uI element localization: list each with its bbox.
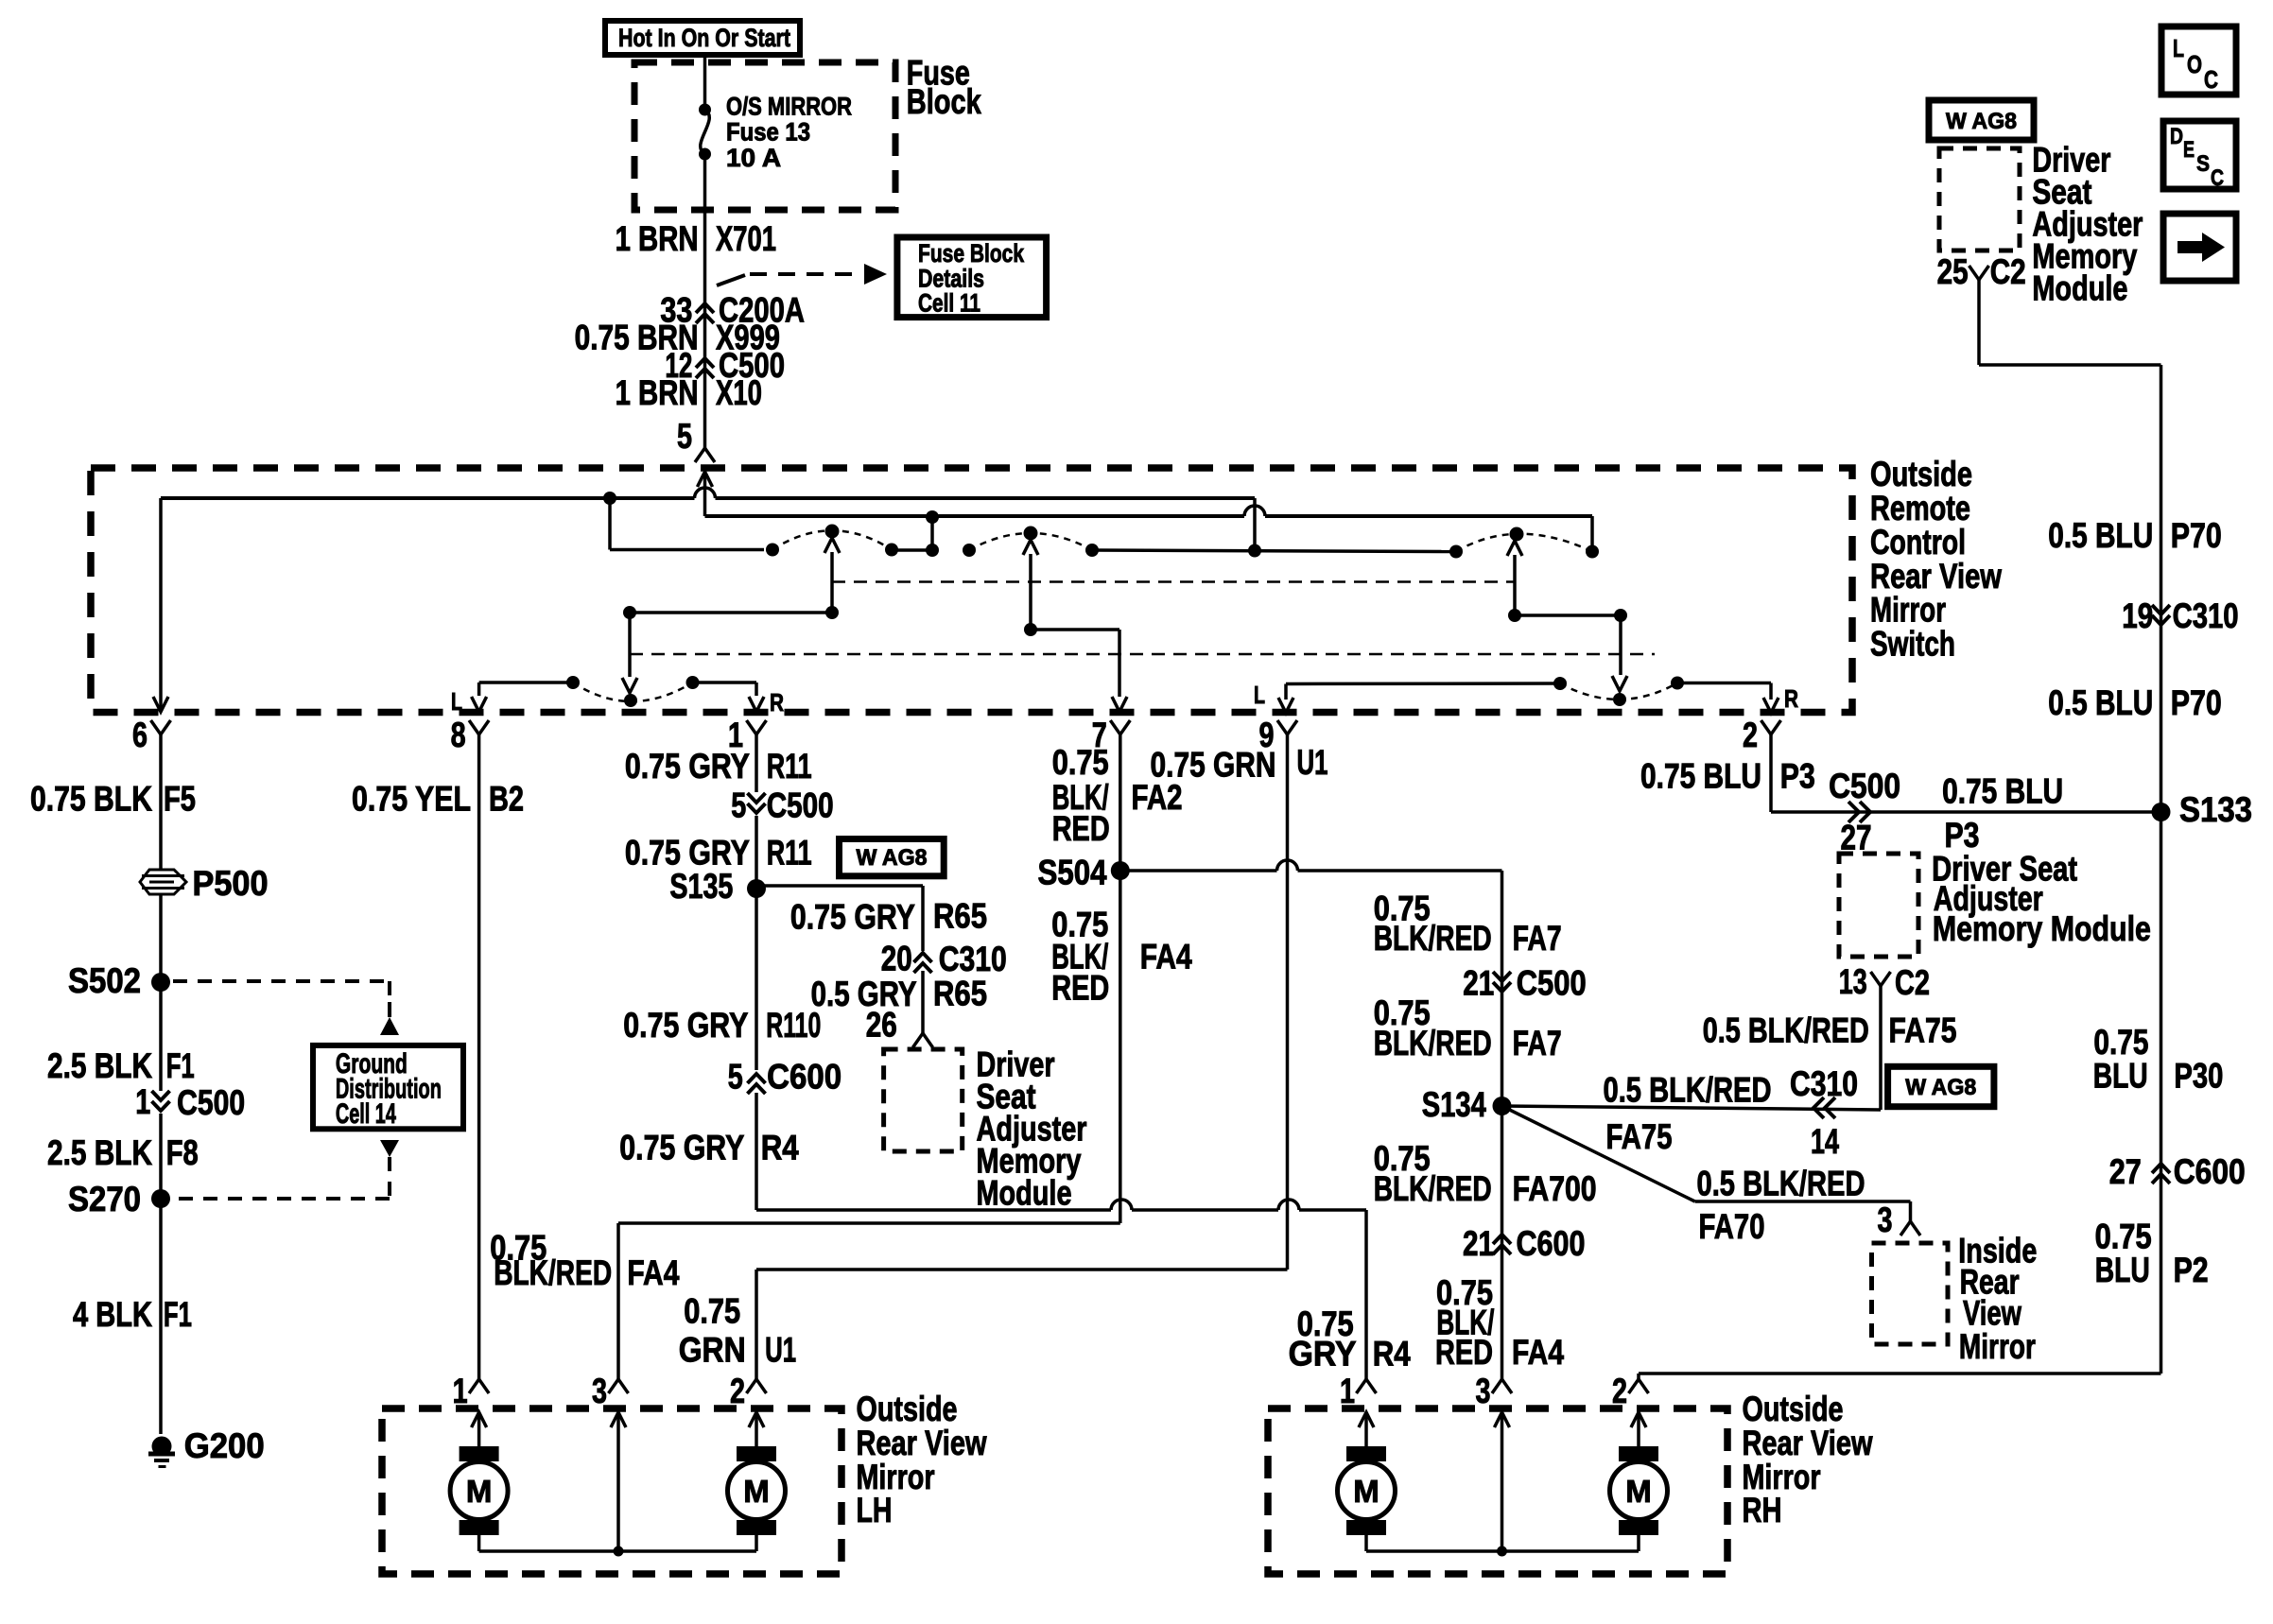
- dashed pointer to fuse block details: [717, 275, 745, 285]
- svg-text:U1: U1: [1297, 743, 1328, 782]
- connector C2 pin 25 fork: [1969, 266, 1989, 280]
- svg-text:FA4: FA4: [627, 1253, 679, 1292]
- svg-text:27: 27: [1841, 819, 1872, 857]
- svg-text:5: 5: [731, 786, 746, 824]
- left switch wiper pivot dot: [825, 525, 840, 539]
- motor RH vertical: [1619, 1446, 1658, 1461]
- svg-text:S134: S134: [1422, 1085, 1486, 1124]
- svg-text:Rear View: Rear View: [857, 1424, 987, 1462]
- left switch fixed contact B: [885, 544, 898, 557]
- mirror RH pin 2 entry arrow: [1631, 1412, 1646, 1427]
- svg-text:L: L: [2173, 34, 2184, 62]
- svg-text:GRN: GRN: [679, 1330, 746, 1369]
- svg-text:25: 25: [1937, 252, 1969, 291]
- wire FA7 upper: [1501, 871, 1504, 1106]
- svg-text:BLU: BLU: [2093, 1057, 2148, 1096]
- wire F1 4mm: [159, 1199, 163, 1434]
- svg-text:R65: R65: [933, 974, 987, 1012]
- fuse F13 top terminal: [699, 104, 711, 116]
- right switch arc: [1456, 534, 1592, 552]
- svg-text:Outside: Outside: [1870, 455, 1972, 493]
- svg-text:0.5 BLK/RED: 0.5 BLK/RED: [1604, 1070, 1772, 1109]
- svg-text:0.75 BLK: 0.75 BLK: [30, 779, 152, 818]
- mirror RH pin 1 entry arrow: [1359, 1412, 1374, 1427]
- svg-text:RED: RED: [1052, 809, 1110, 848]
- middle pole to pin 7: [1024, 623, 1037, 636]
- wire FA2: [1119, 734, 1122, 871]
- svg-text:M: M: [466, 1474, 493, 1509]
- switch pin 8 fork: [469, 720, 489, 734]
- svg-text:P30: P30: [2174, 1057, 2223, 1096]
- svg-text:BLK/RED: BLK/RED: [494, 1253, 612, 1292]
- svg-text:0.75: 0.75: [684, 1292, 740, 1331]
- svg-text:S133: S133: [2179, 790, 2252, 829]
- wire S504 to FA7 chain: [1120, 869, 1277, 872]
- mirror LH common bus: [477, 1535, 481, 1551]
- mirror LH pin 1 fork: [469, 1379, 489, 1393]
- ground distribution box: [313, 1045, 463, 1129]
- svg-text:RED: RED: [1435, 1333, 1493, 1372]
- svg-text:Outside: Outside: [1743, 1390, 1844, 1428]
- right switch lower wiper dot: [1613, 693, 1626, 706]
- motor LH vertical: [737, 1446, 776, 1461]
- svg-text:0.5 BLU: 0.5 BLU: [2048, 516, 2153, 555]
- splice S270: [151, 1189, 170, 1208]
- fuse block details box: [897, 237, 1047, 318]
- svg-text:C310: C310: [2173, 596, 2239, 635]
- wire U1 vertical: [1286, 734, 1290, 1270]
- svg-text:FA7: FA7: [1513, 919, 1562, 958]
- svg-text:C2: C2: [1895, 963, 1930, 1002]
- svg-text:C: C: [2211, 165, 2224, 191]
- left switch pole drop: [628, 613, 632, 677]
- svg-text:C500: C500: [177, 1083, 245, 1122]
- svg-text:F5: F5: [164, 779, 196, 818]
- svg-text:13: 13: [1839, 962, 1867, 1001]
- svg-text:3: 3: [1878, 1201, 1893, 1239]
- svg-text:Rear View: Rear View: [1743, 1424, 1873, 1462]
- svg-text:R: R: [1784, 684, 1798, 713]
- svg-text:R110: R110: [766, 1006, 821, 1045]
- svg-text:Switch: Switch: [1870, 625, 1955, 664]
- wire B2: [477, 734, 481, 1379]
- legend box arrow: [2163, 214, 2236, 281]
- wiring code box W AG8 right: [1888, 1066, 1994, 1106]
- mirror switch dashed box: [91, 468, 1852, 713]
- svg-text:10 A: 10 A: [726, 144, 781, 172]
- wire to pin 2 R: [1677, 682, 1771, 685]
- svg-text:G200: G200: [184, 1426, 265, 1465]
- middle switch contact A: [963, 544, 976, 557]
- wire into fuse block: [703, 55, 707, 110]
- wire F8: [159, 1114, 163, 1199]
- svg-text:BLK/RED: BLK/RED: [1374, 1024, 1492, 1063]
- svg-text:B2: B2: [489, 779, 524, 818]
- svg-text:14: 14: [1811, 1122, 1839, 1161]
- svg-text:2: 2: [1612, 1372, 1627, 1410]
- wire FA4 horizontal: [618, 1221, 1120, 1225]
- fuse block dashed box: [634, 62, 895, 210]
- wire to pin 9 L: [1286, 682, 1560, 685]
- svg-text:R4: R4: [761, 1128, 799, 1166]
- driver seat adjuster memory module box top: [1939, 148, 2020, 251]
- svg-text:RED: RED: [1051, 969, 1109, 1008]
- svg-text:R11: R11: [767, 833, 812, 872]
- svg-text:0.75: 0.75: [1052, 743, 1109, 782]
- left switch lower arc: [573, 682, 693, 701]
- right pole link: [1508, 609, 1521, 622]
- wire R4 to RH pin1: [1364, 1210, 1368, 1379]
- svg-text:3: 3: [1476, 1372, 1491, 1410]
- svg-text:C600: C600: [1517, 1224, 1586, 1263]
- bus B2 corner down: [1590, 516, 1594, 546]
- hop S504 over U1: [1277, 860, 1298, 871]
- wire X999: [703, 312, 707, 367]
- svg-text:C500: C500: [1517, 963, 1587, 1002]
- svg-text:C2: C2: [1990, 252, 2026, 291]
- wire FA75 vertical: [1879, 986, 1883, 1110]
- left contact feed: [608, 498, 612, 550]
- svg-text:Control: Control: [1870, 523, 1966, 561]
- junction B1 drop on B3: [1248, 544, 1261, 558]
- svg-text:X10: X10: [716, 373, 762, 412]
- wire R65 lower: [921, 971, 925, 1033]
- svg-text:1: 1: [135, 1082, 150, 1121]
- svg-text:LH: LH: [857, 1491, 893, 1529]
- right switch lower contact L: [1553, 677, 1567, 690]
- svg-text:M: M: [1625, 1474, 1652, 1509]
- mirror RH pin 2 fork: [1629, 1379, 1649, 1393]
- motor RH horizontal: [1346, 1446, 1386, 1461]
- svg-text:19: 19: [2122, 596, 2153, 635]
- wire P30: [2160, 812, 2163, 1373]
- svg-text:0.5 GRY: 0.5 GRY: [811, 975, 917, 1013]
- pin 6 entry arrow: [153, 697, 168, 712]
- pin 5 entry arrow: [698, 472, 713, 487]
- svg-text:1 BRN: 1 BRN: [616, 219, 699, 258]
- svg-text:R11: R11: [767, 747, 812, 786]
- svg-text:0.75 BLU: 0.75 BLU: [1942, 772, 2063, 811]
- driver seat adjuster memory module box mid: [884, 1049, 963, 1151]
- middle switch pole arrow: [1029, 554, 1032, 630]
- svg-text:1: 1: [1340, 1372, 1355, 1410]
- mirror LH pin 3 entry arrow: [611, 1412, 626, 1427]
- switch pin 1 fork: [747, 720, 767, 734]
- svg-text:2: 2: [1743, 716, 1758, 754]
- wire P3 horizontal: [1771, 810, 2161, 814]
- switch pin 6 fork: [151, 720, 171, 734]
- hop R4 over U1: [1278, 1200, 1299, 1210]
- wire bus B3: [1092, 550, 1456, 552]
- svg-text:GRY: GRY: [1289, 1334, 1357, 1373]
- left switch pole arrow: [830, 552, 834, 613]
- wire R11 upper: [755, 734, 758, 792]
- svg-text:C310: C310: [939, 940, 1007, 978]
- svg-text:0.75 GRY: 0.75 GRY: [625, 747, 750, 786]
- wire FA70 diagonal: [1502, 1106, 1695, 1201]
- svg-text:Cell 11: Cell 11: [918, 289, 980, 318]
- svg-text:0.75 GRN: 0.75 GRN: [1151, 746, 1276, 785]
- svg-text:1: 1: [453, 1372, 468, 1410]
- left switch lower wiper dot: [624, 694, 637, 707]
- mirror RH pin 3 entry arrow: [1495, 1412, 1510, 1427]
- hop of B2 over B1 drop: [1244, 506, 1265, 516]
- mirror RH pin 3 fork: [1492, 1379, 1512, 1393]
- svg-text:S135: S135: [669, 867, 733, 906]
- svg-text:R: R: [770, 688, 784, 717]
- svg-text:Module: Module: [2032, 269, 2127, 308]
- outside rear view mirror LH box: [382, 1408, 842, 1574]
- splice S504: [1111, 861, 1130, 880]
- wire R65 branch: [756, 884, 923, 888]
- svg-text:0.75 BLU: 0.75 BLU: [1640, 756, 1761, 795]
- middle switch contact B: [1085, 544, 1099, 557]
- svg-text:0.75 GRY: 0.75 GRY: [790, 897, 915, 936]
- right switch contact B: [1586, 545, 1599, 559]
- svg-text:BLU: BLU: [2095, 1251, 2150, 1289]
- fuse F13 bottom terminal: [699, 148, 711, 161]
- bus B1 corner down: [1253, 498, 1257, 549]
- mirror LH pin 3 fork: [609, 1379, 629, 1393]
- switch pin 2 fork: [1761, 720, 1781, 734]
- svg-text:2.5 BLK: 2.5 BLK: [47, 1133, 152, 1172]
- svg-text:R65: R65: [933, 896, 987, 935]
- right switch pivot dot: [1510, 527, 1524, 542]
- svg-text:1 BRN: 1 BRN: [616, 373, 699, 412]
- svg-text:5: 5: [728, 1058, 743, 1097]
- svg-text:O: O: [2187, 50, 2202, 78]
- svg-text:Cell 14: Cell 14: [336, 1098, 396, 1130]
- left switch pole bus: [825, 606, 839, 619]
- svg-text:BLK/RED: BLK/RED: [1374, 1169, 1492, 1208]
- svg-text:26: 26: [866, 1005, 897, 1044]
- svg-text:Module: Module: [977, 1174, 1072, 1213]
- switch pin 5 connector fork: [695, 448, 715, 462]
- svg-text:P3: P3: [1780, 756, 1815, 795]
- svg-text:L: L: [1254, 681, 1265, 709]
- svg-text:S502: S502: [68, 961, 141, 1000]
- wire X10: [703, 367, 707, 448]
- wire U1 to LH pin2: [755, 1270, 758, 1379]
- svg-text:R4: R4: [1373, 1334, 1411, 1373]
- splice S502: [151, 973, 170, 992]
- svg-text:0.5 BLK/RED: 0.5 BLK/RED: [1697, 1164, 1865, 1202]
- svg-text:21: 21: [1463, 963, 1494, 1002]
- wire R4 horizontal: [756, 1208, 1111, 1212]
- svg-text:C600: C600: [2174, 1152, 2246, 1191]
- svg-text:C500: C500: [767, 786, 834, 824]
- wire P70 from pin 25: [1977, 280, 1981, 365]
- junction bus B1 to left contact: [603, 492, 616, 505]
- middle switch arc: [969, 533, 1092, 550]
- right switch lower contact R: [1671, 677, 1684, 690]
- svg-text:Hot In On Or Start: Hot In On Or Start: [618, 24, 790, 52]
- motor LH horizontal: [460, 1446, 499, 1461]
- svg-text:0.5 BLU: 0.5 BLU: [2048, 683, 2153, 722]
- svg-text:5: 5: [677, 417, 692, 456]
- wiring code box W AG8 mid: [840, 839, 945, 876]
- svg-text:Mirror: Mirror: [1959, 1327, 2036, 1366]
- svg-text:C310: C310: [1790, 1064, 1858, 1103]
- svg-text:Remote: Remote: [1870, 489, 1970, 527]
- svg-text:W AG8: W AG8: [857, 845, 928, 871]
- wire F1 2.5: [159, 982, 163, 1091]
- svg-text:0.75 YEL: 0.75 YEL: [352, 779, 471, 818]
- svg-text:U1: U1: [765, 1330, 796, 1369]
- svg-text:6: 6: [132, 716, 147, 754]
- svg-text:F1: F1: [166, 1046, 195, 1085]
- right switch pole arrow: [1513, 555, 1517, 615]
- grommet P500: [140, 870, 186, 894]
- power label box Hot In On Or Start: [605, 21, 800, 55]
- ground G200: [152, 1437, 172, 1457]
- svg-text:Outside: Outside: [857, 1390, 958, 1428]
- svg-text:E: E: [2183, 137, 2195, 163]
- svg-text:0.75 GRY: 0.75 GRY: [623, 1006, 748, 1045]
- svg-text:3: 3: [592, 1372, 607, 1410]
- svg-text:Block: Block: [907, 82, 981, 121]
- svg-text:F8: F8: [166, 1133, 199, 1172]
- svg-text:8: 8: [451, 716, 466, 754]
- switch pin 7 fork: [1110, 720, 1130, 734]
- right switch lower arc: [1560, 683, 1677, 700]
- wire bus B1 pin6 feed: [161, 496, 695, 500]
- wire F5: [159, 734, 163, 870]
- svg-text:S270: S270: [68, 1180, 141, 1218]
- svg-text:27: 27: [2109, 1152, 2142, 1191]
- svg-text:FA75: FA75: [1606, 1117, 1673, 1156]
- mirror LH pin 2 fork: [747, 1379, 767, 1393]
- wire R4 vertical: [755, 1093, 758, 1210]
- wire to pin 8 L: [479, 681, 573, 684]
- svg-text:P70: P70: [2171, 683, 2222, 722]
- ground distribution lower link: [380, 1140, 399, 1157]
- mirror RH pin 1 fork: [1357, 1379, 1377, 1393]
- svg-text:W AG8: W AG8: [1946, 109, 2017, 134]
- splice S133: [2152, 803, 2171, 821]
- svg-text:Mirror: Mirror: [1870, 591, 1946, 630]
- svg-text:0.5 BLK/RED: 0.5 BLK/RED: [1703, 1011, 1869, 1050]
- svg-text:W AG8: W AG8: [1905, 1075, 1976, 1100]
- driver seat module box right: [1839, 854, 1918, 957]
- svg-text:Fuse 13: Fuse 13: [726, 117, 810, 146]
- left switch contact B tie: [892, 548, 932, 552]
- svg-text:C600: C600: [767, 1058, 842, 1097]
- mech link upper: [832, 580, 1514, 583]
- wire bus B2 pin5 feed: [705, 514, 1245, 518]
- svg-text:F1: F1: [164, 1295, 192, 1334]
- svg-text:FA4: FA4: [1512, 1333, 1564, 1372]
- svg-text:RH: RH: [1743, 1491, 1782, 1529]
- mech link lower: [630, 653, 1655, 656]
- svg-text:X701: X701: [716, 219, 776, 258]
- wiring code box W AG8 top: [1929, 100, 2034, 140]
- splice S134: [1493, 1097, 1512, 1115]
- outside rear view mirror RH box: [1268, 1408, 1727, 1574]
- svg-text:FA75: FA75: [1889, 1011, 1957, 1050]
- hop R4 over FA4: [1111, 1200, 1132, 1210]
- wire U1 horizontal: [756, 1268, 1288, 1271]
- svg-text:M: M: [743, 1474, 770, 1509]
- legend box LOC: [2161, 26, 2236, 95]
- mirror LH pin 2 entry arrow: [749, 1412, 764, 1427]
- svg-text:C500: C500: [1829, 767, 1900, 805]
- svg-text:P2: P2: [2174, 1251, 2209, 1289]
- svg-text:0.75 GRY: 0.75 GRY: [619, 1128, 744, 1166]
- svg-text:S: S: [2196, 151, 2210, 177]
- svg-text:20: 20: [881, 940, 912, 978]
- wire FA4 vertical: [1119, 871, 1122, 1223]
- left switch wiper arc upper: [772, 530, 892, 549]
- mirror LH pin 1 entry arrow: [472, 1412, 487, 1427]
- hop of B1 over pin5 wire: [695, 488, 716, 498]
- wire R110: [755, 889, 758, 1070]
- splice S502 dashed link: [173, 979, 390, 983]
- svg-text:2.5 BLK: 2.5 BLK: [47, 1046, 152, 1085]
- wire FA4 to LH pin3: [616, 1223, 620, 1379]
- svg-text:C: C: [2204, 65, 2218, 94]
- wire FA700: [1501, 1106, 1504, 1379]
- wire FA75 horizontal: [1502, 1106, 1882, 1110]
- wire to pin 1 R: [693, 681, 757, 684]
- svg-text:L: L: [451, 687, 462, 716]
- wire P2 horizontal: [1639, 1372, 2161, 1375]
- svg-text:O/S MIRROR: O/S MIRROR: [726, 93, 852, 121]
- inside rear view mirror box: [1872, 1243, 1949, 1344]
- wire P2 to RH pin2: [1637, 1373, 1640, 1379]
- svg-text:4 BLK: 4 BLK: [73, 1295, 152, 1334]
- svg-text:FA70: FA70: [1699, 1207, 1765, 1246]
- svg-text:Memory Module: Memory Module: [1933, 909, 2151, 948]
- middle switch pivot dot: [1024, 527, 1038, 541]
- svg-text:2: 2: [730, 1372, 745, 1410]
- svg-text:P70: P70: [2171, 516, 2222, 555]
- svg-text:BLK/RED: BLK/RED: [1374, 919, 1492, 958]
- splice S135: [747, 879, 766, 898]
- left switch fixed contact A: [766, 544, 779, 557]
- svg-text:FA700: FA700: [1513, 1169, 1597, 1208]
- left switch lower contact L: [566, 676, 580, 689]
- right switch contact A: [1449, 545, 1463, 559]
- wire X701: [703, 154, 707, 312]
- pin 6 riser: [159, 498, 163, 712]
- svg-text:P500: P500: [193, 864, 269, 903]
- wire P3: [1769, 734, 1773, 812]
- legend box DESC: [2163, 121, 2236, 189]
- svg-text:S504: S504: [1038, 854, 1107, 892]
- svg-text:M: M: [1353, 1474, 1379, 1509]
- svg-text:FA7: FA7: [1513, 1024, 1562, 1063]
- wire F5 lower: [159, 894, 163, 982]
- svg-text:D: D: [2170, 124, 2183, 149]
- svg-text:21: 21: [1463, 1224, 1494, 1263]
- left switch lower contact R: [686, 676, 700, 689]
- wire R11 lower: [755, 816, 758, 889]
- svg-text:FA4: FA4: [1140, 938, 1192, 976]
- fuse F13 element: [701, 110, 710, 154]
- mirror RH common bus: [1364, 1535, 1368, 1551]
- switch pin 9 fork: [1277, 720, 1297, 734]
